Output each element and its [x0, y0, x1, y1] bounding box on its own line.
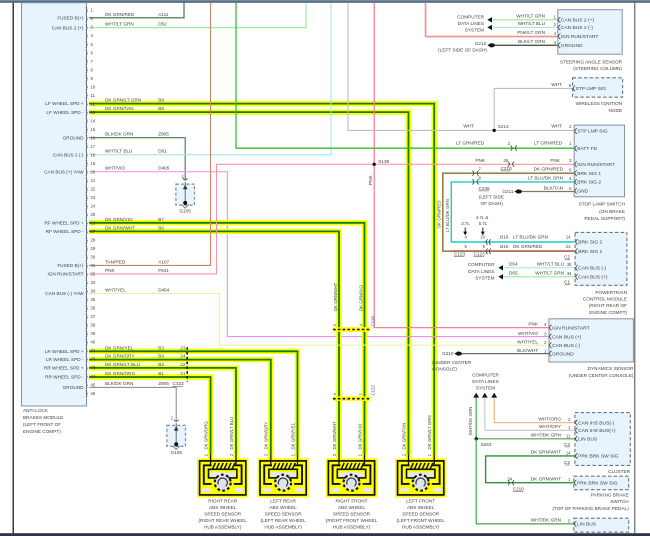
svg-text:(UNDER CENTER CONSOLE): (UNDER CENTER CONSOLE) [569, 373, 634, 378]
svg-text:LEFT FRONT: LEFT FRONT [406, 498, 435, 503]
svg-text:G210: G210 [442, 351, 454, 356]
svg-text:44: 44 [91, 374, 96, 379]
svg-text:WHT/LT GRN: WHT/LT GRN [516, 14, 545, 19]
svg-text:23: 23 [180, 345, 186, 350]
powertrain control module caption [583, 290, 628, 315]
svg-text:STP LMP SIG: STP LMP SIG [576, 86, 607, 92]
svg-text:DK GRN/VIO: DK GRN/VIO [357, 423, 362, 449]
svg-text:CAN BUS (-) YAW: CAN BUS (-) YAW [45, 291, 84, 296]
svg-text:38: 38 [91, 323, 96, 328]
svg-text:17: 17 [91, 144, 96, 149]
wire WHT/LT GRN to SAS pin1 [492, 19, 558, 21]
svg-text:(RIGHT REAR OF: (RIGHT REAR OF [589, 303, 627, 308]
svg-text:DK GRN/RED: DK GRN/RED [534, 167, 564, 172]
svg-text:DK GRN/WHT: DK GRN/WHT [531, 477, 561, 482]
svg-text:(LEFT FRONT OF: (LEFT FRONT OF [23, 422, 61, 427]
svg-text:CONSOLE): CONSOLE) [432, 366, 457, 371]
svg-text:29: 29 [503, 158, 508, 163]
ground G105 [176, 174, 195, 214]
svg-text:DK GRN/VIO: DK GRN/VIO [105, 217, 133, 222]
svg-text:C123: C123 [454, 251, 466, 256]
svg-text:11: 11 [91, 93, 96, 98]
svg-text:WHT/YEL: WHT/YEL [517, 339, 538, 344]
wire WHT/DK GRN through S263 to cluster LIN BUS pin11 [476, 398, 575, 439]
wire DK GRN/ORG B1 pin44 to RR sensor [89, 377, 211, 460]
svg-text:PNK: PNK [475, 158, 486, 163]
svg-text:DK GRN/WHT: DK GRN/WHT [105, 225, 135, 230]
svg-text:GROUND: GROUND [552, 351, 574, 357]
svg-text:COMPUTER: COMPUTER [472, 373, 499, 378]
svg-text:C322: C322 [173, 381, 185, 386]
svg-text:16: 16 [91, 135, 96, 140]
svg-text:DK GRN/LT BLU: DK GRN/LT BLU [105, 362, 141, 367]
dynamics sensor wire labels [517, 321, 547, 353]
svg-text:DK GRN/WHT: DK GRN/WHT [332, 421, 337, 450]
svg-text:RIGHT FRONT: RIGHT FRONT [336, 498, 368, 503]
svg-text:DK GRN/ORG: DK GRN/ORG [204, 421, 209, 450]
svg-text:DK GRN/RED: DK GRN/RED [437, 200, 442, 228]
wire WHT/ORG to cluster pin2 [494, 398, 575, 423]
svg-text:G211: G211 [502, 189, 514, 194]
svg-text:28: 28 [91, 238, 96, 243]
svg-text:36: 36 [91, 306, 96, 311]
wire D64 WHT/LT BLU to PCM pin35 [503, 267, 575, 269]
svg-text:B9: B9 [158, 98, 164, 103]
svg-text:PARKING BRAKE: PARKING BRAKE [591, 493, 629, 498]
svg-text:15: 15 [91, 127, 96, 132]
svg-text:A111: A111 [158, 12, 169, 17]
svg-text:B2: B2 [158, 362, 164, 367]
svg-text:45: 45 [91, 382, 96, 387]
svg-text:B4: B4 [158, 354, 164, 359]
svg-text:PNK: PNK [368, 174, 373, 185]
svg-text:PRK BRK SW SIG: PRK BRK SW SIG [577, 480, 618, 486]
svg-text:23: 23 [91, 195, 96, 200]
svg-text:(STEERING COLUMN): (STEERING COLUMN) [573, 66, 622, 71]
svg-text:BRK SIG 2: BRK SIG 2 [577, 180, 601, 186]
svg-text:35: 35 [567, 262, 572, 267]
svg-text:SPEED SENSOR: SPEED SENSOR [402, 511, 440, 516]
svg-text:WIRELESS IGNITION: WIRELESS IGNITION [576, 101, 622, 106]
svg-text:BATT FD: BATT FD [577, 146, 597, 152]
computer data lines label (bottom) [472, 373, 499, 391]
svg-text:5.7L: 5.7L [479, 221, 488, 226]
svg-text:23: 23 [566, 244, 571, 249]
svg-text:HUB ASSEMBLY): HUB ASSEMBLY) [264, 525, 302, 530]
parking brake switch [574, 476, 629, 490]
svg-text:STP LMP SIG: STP LMP SIG [577, 129, 608, 135]
svg-text:DK GRN/WHT: DK GRN/WHT [531, 450, 561, 455]
svg-text:PNK: PNK [528, 321, 539, 326]
svg-text:4.7L &: 4.7L & [476, 215, 489, 220]
wire LT GRN/RED from top to stop lamp switch pin1 [236, 3, 574, 149]
svg-text:C2: C2 [564, 460, 570, 465]
svg-text:(LEFT FRONT WHEEL: (LEFT FRONT WHEEL [397, 518, 446, 523]
svg-text:43: 43 [91, 365, 96, 370]
svg-text:C120: C120 [371, 315, 376, 326]
svg-text:D61: D61 [158, 149, 167, 154]
dynamics sensor [549, 319, 634, 362]
svg-text:RF WHEEL SPD +: RF WHEEL SPD + [44, 220, 83, 225]
svg-text:DK GRN/VIO: DK GRN/VIO [358, 285, 363, 311]
svg-text:32: 32 [91, 272, 96, 277]
svg-text:DK GRN/TAN: DK GRN/TAN [105, 106, 134, 111]
RR wheel speed sensor [197, 454, 248, 497]
svg-text:CAN BUS (+): CAN BUS (+) [552, 334, 582, 340]
svg-text:WHT/GRY: WHT/GRY [539, 424, 562, 429]
svg-text:HUB ASSEMBLY): HUB ASSEMBLY) [333, 525, 371, 530]
svg-text:(TOP OF PARKING BRAKE PEDAL): (TOP OF PARKING BRAKE PEDAL) [552, 506, 629, 511]
svg-text:LEFT REAR: LEFT REAR [270, 498, 296, 503]
svg-text:RF WHEEL SPD -: RF WHEEL SPD - [46, 229, 84, 234]
svg-text:WHT/LT GRN: WHT/LT GRN [535, 270, 564, 275]
wire DK GRN/YEL B3 pin41 to LR sensor [89, 351, 298, 460]
svg-text:CONTROL MODULE: CONTROL MODULE [583, 297, 627, 302]
svg-text:LR WHEEL SPD -: LR WHEEL SPD - [46, 357, 84, 362]
svg-text:10: 10 [91, 84, 96, 89]
svg-text:B7: B7 [158, 217, 164, 222]
svg-text:30: 30 [91, 255, 96, 260]
svg-text:G105: G105 [170, 450, 182, 455]
ABM pin brackets 1-46 [86, 8, 96, 398]
svg-text:WHT/YEL: WHT/YEL [105, 288, 126, 293]
svg-text:29: 29 [91, 246, 96, 251]
LF wheel speed sensor [395, 454, 446, 497]
svg-text:DYNAMICS SENSOR: DYNAMICS SENSOR [588, 366, 634, 371]
svg-text:NODE: NODE [608, 108, 622, 113]
svg-text:34: 34 [508, 477, 513, 482]
connector C322 dashed line through pins 41-44 wires [186, 347, 188, 381]
svg-text:BRK SIG 1: BRK SIG 1 [578, 249, 602, 255]
svg-text:DK GRN/LT GRN: DK GRN/LT GRN [105, 98, 141, 103]
ground G212 [487, 43, 491, 48]
connector C122 on RF sensor wires [332, 384, 375, 401]
svg-text:42: 42 [91, 357, 96, 362]
svg-text:LF WHEEL SPD +: LF WHEEL SPD + [45, 101, 84, 106]
svg-text:LT BLU/DK GRN: LT BLU/DK GRN [445, 199, 450, 232]
svg-text:COMPUTER: COMPUTER [457, 14, 484, 19]
svg-text:ANTI-LOCK: ANTI-LOCK [23, 408, 49, 413]
wire DK GRN/RED stop lamp switch pin6 to PCM pin23 [443, 173, 574, 251]
svg-text:DK GRN/LT BLU: DK GRN/LT BLU [229, 417, 234, 450]
engine variant labels at C123 [461, 215, 488, 235]
svg-text:COMPUTER: COMPUTER [468, 262, 495, 267]
labels on sensor drop wires [204, 416, 433, 457]
svg-text:BLK/LT GRN: BLK/LT GRN [518, 39, 545, 44]
svg-text:ABS WHEEL: ABS WHEEL [338, 505, 366, 510]
svg-text:12: 12 [91, 101, 96, 106]
svg-text:BRAKES MODULE: BRAKES MODULE [23, 415, 63, 420]
svg-text:C3: C3 [564, 442, 570, 447]
svg-text:CLUSTER: CLUSTER [608, 469, 630, 474]
wire BLK/LT GRN from G212 to SAS pin3 [495, 44, 558, 46]
svg-text:CAN IHS BUS(-): CAN IHS BUS(-) [578, 420, 615, 426]
computer data lines system label (top) [457, 14, 484, 32]
wire WHT/VIO D465 pin20 to dynamics sensor [89, 172, 549, 337]
svg-text:22: 22 [180, 362, 186, 367]
svg-text:(RIGHT REAR WHEEL: (RIGHT REAR WHEEL [199, 518, 248, 523]
svg-text:ABS WHEEL: ABS WHEEL [269, 505, 297, 510]
svg-text:ABS WHEEL: ABS WHEEL [209, 505, 237, 510]
svg-text:DATA LINES: DATA LINES [468, 269, 494, 274]
svg-text:CAN BUS 2 (-): CAN BUS 2 (-) [561, 25, 593, 31]
wire PNK/LT GRN from top to SAS pin4 [425, 3, 558, 37]
dynamics sensor caption [569, 366, 634, 378]
wire DK GRN/WHT B6 pin27 to RF sensor [89, 231, 339, 460]
svg-text:RR WHEEL SPD -: RR WHEEL SPD - [45, 375, 84, 380]
svg-text:DK GRN/LT GRN: DK GRN/LT GRN [427, 416, 432, 450]
svg-text:40: 40 [91, 340, 96, 345]
svg-text:26: 26 [91, 221, 96, 226]
svg-text:CAN BUS 2 (-): CAN BUS 2 (-) [53, 152, 84, 157]
labels on RF drop wires upper [333, 282, 364, 311]
svg-text:46: 46 [91, 391, 96, 396]
svg-text:18: 18 [91, 152, 96, 157]
svg-text:C1: C1 [564, 279, 570, 284]
wire DK GRN/RED A111 pin2 to top [89, 3, 184, 18]
svg-text:BLK/WHT: BLK/WHT [517, 348, 538, 353]
svg-text:BLK/DK GRN: BLK/DK GRN [105, 381, 133, 386]
svg-text:(ON BRAKE: (ON BRAKE [599, 209, 625, 214]
svg-text:35: 35 [91, 297, 96, 302]
svg-text:S139: S139 [378, 159, 389, 164]
svg-text:SYSTEM: SYSTEM [475, 275, 494, 280]
svg-text:(LEFT SIDE: (LEFT SIDE [479, 195, 504, 200]
svg-text:B1: B1 [158, 371, 164, 376]
wire WHT/YEL D464 pin34 to dynamics sensor [89, 294, 549, 346]
svg-text:DK GRN/WHT: DK GRN/WHT [333, 282, 338, 311]
svg-text:LIN BUS: LIN BUS [578, 437, 598, 443]
svg-text:25: 25 [91, 212, 96, 217]
svg-text:DK GRN/RED: DK GRN/RED [105, 12, 135, 17]
svg-text:(UNDER CENTER: (UNDER CENTER [432, 360, 471, 365]
svg-text:WHT/LT GRN: WHT/LT GRN [105, 22, 134, 27]
anti-lock brakes module (ABM) [22, 3, 87, 406]
svg-text:B3: B3 [158, 345, 164, 350]
svg-text:PNK/LT GRN: PNK/LT GRN [517, 30, 545, 35]
svg-text:DK GRN/YEL: DK GRN/YEL [105, 345, 134, 350]
svg-text:SYSTEM: SYSTEM [476, 386, 495, 391]
svg-text:PEDAL SUPPORT): PEDAL SUPPORT) [584, 216, 625, 221]
RF wheel speed sensor [326, 454, 377, 497]
svg-text:C122: C122 [371, 384, 376, 395]
svg-text:ABS WHEEL: ABS WHEEL [407, 505, 435, 510]
wireless ignition node caption [576, 101, 622, 113]
ground G210 [454, 351, 458, 356]
svg-text:SYSTEM: SYSTEM [465, 27, 484, 32]
svg-text:19: 19 [91, 161, 96, 166]
wire WHT/LT GRN D52 pin3 to top [89, 3, 306, 28]
svg-text:(LEFT REAR WHEEL: (LEFT REAR WHEEL [260, 518, 306, 523]
svg-text:B6: B6 [158, 225, 164, 230]
svg-text:DK GRN/RED: DK GRN/RED [513, 244, 543, 249]
connector C210 on PNK wire [508, 162, 514, 167]
svg-text:IGN RUN/START: IGN RUN/START [577, 162, 615, 168]
wire WHT from top to stop lamp switch pin2 [348, 3, 574, 131]
svg-text:WHT: WHT [551, 82, 562, 87]
svg-text:CAN BUS (+) YAW: CAN BUS (+) YAW [44, 169, 84, 174]
svg-text:31: 31 [91, 263, 96, 268]
svg-text:14: 14 [566, 450, 571, 455]
svg-text:WHT/LT BLU: WHT/LT BLU [105, 149, 133, 154]
svg-text:24: 24 [91, 204, 96, 209]
svg-text:LT BLU/DK GRN: LT BLU/DK GRN [513, 235, 548, 240]
svg-text:BLK/DK GRN: BLK/DK GRN [105, 132, 133, 137]
svg-text:DK GRN/GRY: DK GRN/GRY [105, 354, 135, 359]
wire WHT to wireless ignition node pin6 [494, 88, 572, 130]
svg-text:(LEFT SIDE OF DASH): (LEFT SIDE OF DASH) [438, 47, 487, 52]
svg-text:PRK BRK SW SIG: PRK BRK SW SIG [578, 454, 619, 460]
svg-text:F941: F941 [158, 268, 169, 273]
svg-text:G105: G105 [179, 209, 191, 214]
svg-text:HUB ASSEMBLY): HUB ASSEMBLY) [204, 525, 242, 530]
ABM pin name labels [44, 15, 84, 390]
svg-text:24: 24 [180, 354, 186, 359]
svg-text:13: 13 [91, 110, 96, 115]
svg-text:ENGINE COMPT): ENGINE COMPT) [23, 429, 61, 434]
svg-text:TAN/RED: TAN/RED [105, 259, 126, 264]
svg-text:C210: C210 [501, 166, 513, 171]
svg-text:WHT/VIO: WHT/VIO [105, 166, 125, 171]
svg-text:FUSED B(+): FUSED B(+) [57, 15, 84, 20]
svg-text:GROUND: GROUND [561, 43, 583, 49]
svg-text:LT GRN/RED: LT GRN/RED [534, 141, 563, 146]
data line arrows [473, 393, 497, 398]
svg-text:B8: B8 [158, 106, 164, 111]
svg-text:POWERTRAIN: POWERTRAIN [595, 290, 627, 295]
svg-text:14: 14 [566, 235, 571, 240]
wire BLK/WHT from G210 to dynamics sensor pin1 [462, 353, 549, 355]
svg-text:14: 14 [91, 118, 96, 123]
svg-text:LIN BUS: LIN BUS [577, 522, 597, 528]
svg-text:33: 33 [91, 280, 96, 285]
wire DK GRN/LT BLU B2 pin43 to RR sensor [89, 368, 236, 460]
wire BLK/DK GRN Z905 pin16 to ground G105 [89, 138, 185, 180]
wire DK GRN/VIO B7 pin26 to RF sensor [89, 223, 365, 460]
wire WHT/DK GRN S263 to LIN BUS pin5 [476, 439, 574, 524]
svg-text:WHT/LT BLU: WHT/LT BLU [518, 21, 546, 26]
svg-text:WHT: WHT [463, 123, 474, 128]
wire DK GRN/LT GRN B9 pin12 to LF sensor [89, 104, 434, 460]
svg-text:CAN BUS 2 (+): CAN BUS 2 (+) [52, 25, 84, 30]
svg-text:PNK: PNK [105, 268, 116, 273]
svg-text:DK GRN/ORG: DK GRN/ORG [105, 371, 136, 376]
svg-text:D464: D464 [158, 288, 170, 293]
svg-text:SWITCH: SWITCH [610, 499, 629, 504]
svg-text:WHT: WHT [551, 123, 562, 128]
svg-text:BRK SIG 1: BRK SIG 1 [577, 171, 601, 177]
powertrain control module [575, 232, 627, 285]
svg-text:LF WHEEL SPD -: LF WHEEL SPD - [46, 110, 84, 115]
wire WHT/GRY to cluster CAN IHS BUS(+) [485, 398, 575, 431]
splice S139 [373, 163, 376, 166]
svg-text:C236: C236 [479, 186, 491, 191]
svg-text:GND: GND [577, 189, 588, 195]
ground G105 [167, 415, 186, 455]
svg-text:LR WHEEL SPD +: LR WHEEL SPD + [45, 349, 84, 354]
svg-text:CAN BUS 2 (+): CAN BUS 2 (+) [561, 18, 595, 24]
svg-text:CAN BUS (-): CAN BUS (-) [552, 343, 580, 349]
svg-text:FUSED B(+): FUSED B(+) [57, 263, 84, 268]
wire WHT/LT BLU to SAS pin2 [492, 26, 558, 28]
svg-text:CAN IHS BUS(+): CAN IHS BUS(+) [578, 428, 616, 434]
svg-text:21: 21 [180, 371, 186, 376]
svg-text:LT GRN/RED: LT GRN/RED [456, 141, 485, 146]
svg-text:DK GRN/YEL: DK GRN/YEL [290, 422, 295, 449]
svg-text:11: 11 [566, 433, 571, 438]
connector C120 on RF sensor wires [332, 315, 375, 331]
wire BLK/DK GRN Z905 pin45 to ground G105 [89, 387, 176, 420]
cluster [575, 413, 630, 466]
parking brake switch caption [552, 493, 629, 511]
svg-text:RR WHEEL SPD +: RR WHEEL SPD + [44, 366, 84, 371]
svg-text:Z905: Z905 [158, 381, 169, 386]
steering angle sensor [558, 10, 622, 55]
svg-text:HUB ASSEMBLY): HUB ASSEMBLY) [402, 525, 440, 530]
svg-text:D465: D465 [158, 166, 170, 171]
splice S214 [493, 129, 496, 132]
svg-text:STEERING ANGLE SENSOR: STEERING ANGLE SENSOR [560, 59, 623, 64]
svg-text:10: 10 [480, 235, 485, 240]
svg-text:3.7L: 3.7L [461, 221, 470, 226]
stop lamp switch [574, 125, 624, 197]
svg-text:22: 22 [91, 187, 96, 192]
connector C123 marks on BRK SIG wires [464, 235, 490, 254]
LIN bus module [574, 518, 629, 532]
svg-text:D65: D65 [509, 270, 518, 275]
svg-text:BRK SIG 2: BRK SIG 2 [578, 240, 602, 246]
steering angle sensor caption [560, 59, 623, 71]
svg-text:IGN RUN/START: IGN RUN/START [552, 325, 590, 331]
wire LT BLU/DK GRN stop lamp switch pin4 to PCM pin14 [451, 182, 574, 242]
svg-text:ENGINE COMPT): ENGINE COMPT) [589, 310, 627, 315]
wire DK GRN/GRY B4 pin42 to LR sensor [89, 360, 271, 460]
svg-text:LT BLU/DK GRN: LT BLU/DK GRN [528, 175, 563, 180]
svg-text:WHT/DK GRN: WHT/DK GRN [531, 518, 561, 523]
svg-text:WHT/LT BLU: WHT/LT BLU [537, 261, 565, 266]
svg-text:21: 21 [91, 178, 96, 183]
svg-text:34: 34 [91, 289, 96, 294]
svg-text:34: 34 [567, 271, 572, 276]
svg-text:RIGHT REAR: RIGHT REAR [208, 498, 237, 503]
wire PNK F941 pin32 to stop lamp switch [89, 164, 574, 274]
svg-text:STOP LAMP SWITCH: STOP LAMP SWITCH [579, 202, 625, 207]
svg-text:41: 41 [91, 348, 96, 353]
wire DK GRN/TAN B8 pin13 to LF sensor [89, 112, 409, 460]
svg-text:OF DASH): OF DASH) [481, 201, 504, 206]
svg-text:DATA LINES: DATA LINES [472, 379, 498, 384]
svg-text:A107: A107 [158, 259, 169, 264]
svg-text:B15: B15 [500, 244, 509, 249]
svg-text:SPEED SENSOR: SPEED SENSOR [333, 511, 371, 516]
ground G211 [514, 189, 518, 194]
svg-text:27: 27 [91, 229, 96, 234]
svg-text:(RIGHT FRONT WHEEL: (RIGHT FRONT WHEEL [326, 518, 378, 523]
svg-text:20: 20 [91, 169, 96, 174]
wire D65 WHT/LT GRN to PCM pin34 [503, 276, 575, 278]
svg-text:PNK: PNK [550, 158, 561, 163]
svg-text:D52: D52 [158, 22, 167, 27]
svg-text:C123: C123 [474, 251, 486, 256]
svg-text:WHT/DK GRN: WHT/DK GRN [468, 407, 473, 435]
svg-text:B16: B16 [500, 235, 509, 240]
wireless ignition node [573, 78, 623, 97]
svg-text:DK GRN/GRY: DK GRN/GRY [264, 422, 269, 450]
wire WHT/LT BLU D61 pin18 to top [89, 3, 331, 155]
svg-text:C2: C2 [564, 254, 570, 259]
svg-text:DK GRN/TAN: DK GRN/TAN [401, 423, 406, 450]
svg-text:DATA LINES: DATA LINES [458, 21, 484, 26]
